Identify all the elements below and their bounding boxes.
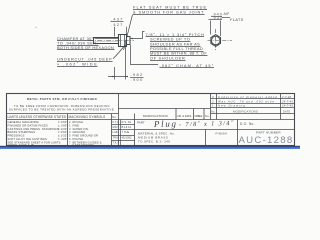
divider no col xyxy=(203,109,205,120)
revision row line 1 xyxy=(211,98,295,100)
svg-text:METAL PARTS STM. OR FULLY FINI: METAL PARTS STM. OR FULLY FINISHED xyxy=(27,97,97,101)
dimension .940/.930 A/F over end view xyxy=(212,12,244,22)
stray scan dot xyxy=(35,27,36,28)
note box text xyxy=(9,97,114,112)
svg-text:FINISHED OR DATUM FACES: FINISHED OR DATUM FACES xyxy=(8,123,48,127)
divider under note box / header band top xyxy=(7,113,119,115)
divider material/finish xyxy=(205,130,207,146)
svg-text:± .005˝: ± .005˝ xyxy=(58,137,68,141)
limits list xyxy=(8,120,69,147)
svg-text:GENERAL MACHINING: GENERAL MACHINING xyxy=(8,120,39,124)
extension line left of .437 dim xyxy=(114,27,116,37)
underline chamfer L3 xyxy=(57,49,115,51)
signoff box codes xyxy=(113,120,133,145)
svg-text:MODIFICATIONS: MODIFICATIONS xyxy=(233,110,258,114)
svg-text:No.: No. xyxy=(205,114,210,118)
blue bar dark top edge xyxy=(0,146,300,147)
divider finish / DO box xyxy=(237,120,239,146)
svg-text:Undersize of diameter added: Undersize of diameter added xyxy=(218,95,277,99)
underline undercut L2 xyxy=(57,66,98,68)
revision header row line xyxy=(211,113,295,115)
extension line right of .437 dim xyxy=(126,27,128,35)
bracket leader from thread note to shank xyxy=(130,32,144,39)
svg-text:3 SUPER FIN.: 3 SUPER FIN. xyxy=(69,127,89,131)
middle header band top xyxy=(119,108,211,110)
svg-text:4 GROUND: 4 GROUND xyxy=(69,130,85,134)
dimension .437/.427 over hex head xyxy=(111,17,123,27)
material cell text xyxy=(138,132,175,144)
hexagon end view xyxy=(211,35,221,47)
hex head side view xyxy=(119,35,127,47)
arrow right on lower dim xyxy=(126,76,128,78)
underline flat seat L1 xyxy=(133,9,207,11)
svg-text:1: 1 xyxy=(212,104,214,108)
fraction bar .982/.900 xyxy=(130,77,144,79)
svg-text:R.S. No: R.S. No xyxy=(122,120,132,124)
thread crest line top xyxy=(94,38,119,40)
hex facet line 1 xyxy=(120,35,122,47)
svg-text:DATE: DATE xyxy=(283,110,290,114)
svg-text:1 FINE: 1 FINE xyxy=(69,123,79,127)
divider limits/machining xyxy=(67,114,69,146)
arrow left on lower dim xyxy=(112,76,115,78)
svg-text:± 1/64˝: ± 1/64˝ xyxy=(58,130,68,134)
divider signoff boxes right xyxy=(134,114,136,146)
svg-text:No.: No. xyxy=(211,109,216,113)
svg-text:OF SHOULDER: OF SHOULDER xyxy=(150,55,185,60)
svg-text:± 1/64˝: ± 1/64˝ xyxy=(58,120,68,124)
leader from chamfer note to hex head xyxy=(95,38,119,40)
svg-text:FINISH: FINISH xyxy=(216,131,228,135)
lower dimension extension line right xyxy=(125,45,127,80)
svg-text:± .005˝: ± .005˝ xyxy=(58,123,68,127)
svg-text:F.T.O: F.T.O xyxy=(113,120,120,124)
svg-text:B.16.41: B.16.41 xyxy=(122,125,132,129)
dim line under .930 xyxy=(209,19,223,21)
svg-text:PART: PART xyxy=(137,120,145,124)
svg-text:7 THE: 7 THE xyxy=(122,130,130,134)
divider note box right xyxy=(118,94,120,146)
header band labels xyxy=(8,114,211,119)
svg-text:MODIFICATIONS: MODIFICATIONS xyxy=(143,114,168,118)
revision date col xyxy=(280,94,282,120)
svg-text:NOTE No.: NOTE No. xyxy=(195,114,203,118)
svg-text:LAB: LAB xyxy=(113,130,118,134)
svg-text:FLATS: FLATS xyxy=(230,17,244,22)
divider machining/No col xyxy=(111,114,113,146)
svg-text:MIN: MIN xyxy=(113,125,118,129)
svg-text:TO SPEC. B.S. 249: TO SPEC. B.S. 249 xyxy=(138,140,170,144)
svg-text:MACHINING SYMBOLS: MACHINING SYMBOLS xyxy=(69,115,106,119)
svg-text:.427: .427 xyxy=(111,22,123,27)
svg-text:± 1/32˝: ± 1/32˝ xyxy=(58,127,68,131)
svg-text:No.: No. xyxy=(112,115,117,119)
header band bottom line xyxy=(7,119,295,121)
lower dimension line xyxy=(108,76,128,78)
svg-text:3: 3 xyxy=(212,95,214,99)
arrowhead at nose xyxy=(130,38,133,40)
end view horizontal centerline xyxy=(208,40,233,42)
svg-text:× .062˝ WIDE: × .062˝ WIDE xyxy=(57,61,97,66)
svg-text:14-7-45: 14-7-45 xyxy=(282,104,293,108)
underlines thread spec xyxy=(146,37,208,61)
svg-text:2-7-46: 2-7-46 xyxy=(281,95,291,99)
extension line left of end view xyxy=(210,21,212,35)
leader for .062 cham xyxy=(131,45,159,65)
centerline of plug (dash-dot) xyxy=(89,40,135,42)
threaded shank outline xyxy=(94,38,119,44)
hex facet line 2 xyxy=(124,35,126,47)
divider under title row xyxy=(135,129,295,131)
lower dimension extension line left xyxy=(114,67,116,80)
revision row line 2 xyxy=(211,103,295,105)
svg-text:CASTINGS AND PRESS. STAMPINGS: CASTINGS AND PRESS. STAMPINGS xyxy=(8,127,59,131)
nose of plug xyxy=(127,37,131,45)
svg-text:& SMOOTH FOR GAS JOINT: & SMOOTH FOR GAS JOINT xyxy=(133,9,204,14)
svg-text:2 ROUGH: 2 ROUGH xyxy=(69,120,83,124)
note: chamfer at 30 text block xyxy=(57,36,114,50)
note: .062 chamfer at 45 xyxy=(160,63,214,68)
circle in end view xyxy=(212,36,220,44)
svg-text:AUC-1288: AUC-1288 xyxy=(239,135,294,146)
svg-text:± 1/32˝: ± 1/32˝ xyxy=(58,134,68,138)
extension line right of end view xyxy=(220,21,222,37)
svg-text:LIMITS UNLESS OTHERWISE STATED: LIMITS UNLESS OTHERWISE STATED xyxy=(8,115,67,119)
signoff rows xyxy=(112,120,135,146)
svg-text:New Drawing: New Drawing xyxy=(218,104,245,108)
leader from flat-seat note to hex face xyxy=(124,15,133,51)
underline .062 cham xyxy=(160,67,215,69)
svg-text:45/1362: 45/1362 xyxy=(122,135,133,139)
svg-text:PART NUMBER: PART NUMBER xyxy=(256,131,281,135)
underline chamfer L1 xyxy=(57,40,94,42)
svg-text:5 FINE GROUND OR: 5 FINE GROUND OR xyxy=(69,134,98,138)
svg-text:D.O. No.: D.O. No. xyxy=(240,122,255,126)
revision table no-col right xyxy=(216,94,218,120)
svg-text:TRO: TRO xyxy=(113,135,119,139)
svg-text:A/F: A/F xyxy=(224,12,231,16)
dim text .982/.900 xyxy=(131,72,144,82)
note: undercut text xyxy=(57,57,112,67)
revision row line 3 xyxy=(211,107,295,109)
revision table no-col left xyxy=(210,94,212,120)
svg-text:BRASS STAMPINGS: BRASS STAMPINGS xyxy=(8,130,36,134)
end view vertical centerline xyxy=(215,29,217,51)
svg-text:.900: .900 xyxy=(131,77,144,82)
svg-text:SURFACES TO BE TREATED WITH AN: SURFACES TO BE TREATED WITH AN AGREED PR… xyxy=(9,108,114,112)
svg-text:T.K.S: T.K.S xyxy=(113,141,120,145)
svg-text:- 7/8˝ x 1 3/4˝: - 7/8˝ x 1 3/4˝ xyxy=(179,120,234,128)
underline chamfer L2 xyxy=(57,45,99,47)
title block outer border xyxy=(7,94,295,146)
fraction bar .437/.427 xyxy=(111,21,124,23)
underline flat seat L2 xyxy=(133,14,205,16)
leader undercut to groove xyxy=(113,45,125,59)
revision table rows xyxy=(211,95,293,114)
blue bar xyxy=(0,147,300,149)
note: flat seat callout text xyxy=(133,4,207,14)
thread crest line bottom xyxy=(94,41,119,43)
divider modifications header cell xyxy=(175,109,177,120)
divider note-no col xyxy=(193,109,195,120)
svg-text:PRESSINGS: PRESSINGS xyxy=(8,134,25,138)
svg-text:Plug: Plug xyxy=(153,118,177,129)
machining symbols list xyxy=(69,120,102,147)
underline undercut L1 xyxy=(57,61,113,63)
fraction bar .940/.930 xyxy=(211,16,222,18)
svg-text:DR. & DATE: DR. & DATE xyxy=(178,114,192,118)
tick from A/F to FLATS xyxy=(222,17,230,19)
thread spec note block xyxy=(146,32,208,61)
